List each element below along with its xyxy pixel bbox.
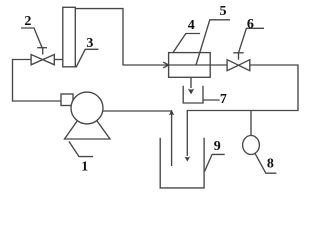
svg-text:2: 2	[24, 14, 31, 29]
svg-text:9: 9	[214, 139, 221, 154]
svg-text:1: 1	[81, 159, 88, 174]
svg-text:6: 6	[247, 17, 254, 32]
svg-text:5: 5	[220, 4, 227, 19]
svg-text:8: 8	[267, 157, 274, 172]
svg-text:7: 7	[220, 92, 227, 107]
svg-text:4: 4	[188, 18, 195, 33]
svg-text:3: 3	[86, 36, 93, 51]
